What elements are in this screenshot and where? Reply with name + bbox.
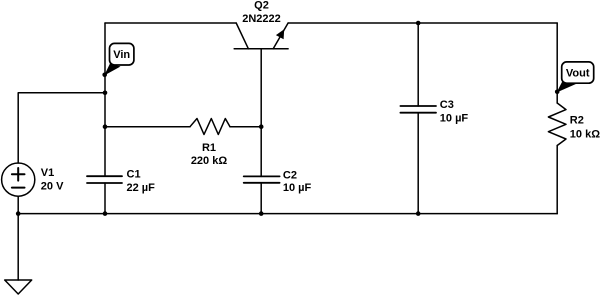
V1 minus sign (12, 187, 25, 189)
flag Vin box (110, 43, 134, 65)
resistor R1 zigzag (190, 119, 230, 135)
flag Vin tail (104, 64, 120, 76)
svg-text:22 µF: 22 µF (127, 182, 156, 194)
wire C3 branch upper (417, 23, 419, 106)
wire top bus right (emitter to right corner) (288, 22, 557, 24)
svg-text:R1: R1 (202, 142, 216, 154)
V1 plus sign (12, 168, 25, 181)
node C3 top junction (416, 21, 421, 26)
capacitor C3 (400, 106, 436, 113)
wire top bus left (collector side) (105, 22, 236, 24)
svg-text:Vout: Vout (566, 68, 590, 80)
transistor Q2 base lead down (260, 49, 262, 177)
svg-text:10 µF: 10 µF (283, 182, 312, 194)
svg-text:Q2: Q2 (254, 0, 269, 12)
transistor Q2 collector diagonal (236, 23, 248, 49)
svg-text:C1: C1 (127, 169, 141, 181)
wire C3 branch lower (417, 113, 419, 214)
svg-text:C3: C3 (440, 99, 454, 111)
capacitor C1 (87, 176, 122, 183)
node Vin tap (102, 73, 107, 78)
svg-text:V1: V1 (41, 167, 54, 179)
capacitor C2 (244, 176, 280, 182)
wire right vertical lower (R2 to bottom corner) (556, 146, 558, 214)
node C2 bottom junction (259, 211, 264, 216)
svg-text:20 V: 20 V (41, 181, 64, 193)
wire left vertical upper (top corner down to C1) (104, 23, 106, 176)
wire ground lead (17, 214, 19, 280)
ground (5, 280, 32, 294)
wire R1 left (105, 126, 190, 128)
wire R1 right (230, 126, 261, 128)
wire C2 to bottom bus (260, 183, 262, 214)
svg-text:10 kΩ: 10 kΩ (570, 129, 600, 141)
svg-text:C2: C2 (283, 170, 297, 182)
node V1 top junction (103, 91, 108, 96)
node R1 left junction (103, 124, 108, 129)
svg-text:10 µF: 10 µF (440, 113, 469, 125)
node C3 bottom junction (416, 211, 421, 216)
svg-text:R2: R2 (570, 115, 584, 127)
source V1 (2, 163, 35, 196)
node R1 right junction (259, 124, 264, 129)
svg-text:220 kΩ: 220 kΩ (191, 155, 228, 167)
transistor Q2 emitter diagonal (273, 23, 288, 49)
wire left vertical lower (C1 to bottom bus) (104, 183, 106, 214)
resistor R2 zigzag (548, 103, 566, 146)
flag Vout box (562, 62, 594, 83)
wire bottom bus (18, 213, 557, 215)
flag Vout tail (557, 81, 577, 93)
svg-text:Vin: Vin (113, 49, 130, 61)
transistor Q2 base bar (234, 48, 288, 50)
wire V1 top branch (18, 93, 105, 163)
transistor Q2 emitter arrowhead (276, 29, 284, 39)
svg-text:2N2222: 2N2222 (242, 13, 281, 25)
wire V1 bottom lead (17, 196, 19, 213)
node V1 bottom junction (16, 211, 21, 216)
node C1 bottom junction (103, 211, 108, 216)
node Vout tap (555, 90, 560, 95)
wire right vertical upper (to R2) (556, 23, 558, 103)
